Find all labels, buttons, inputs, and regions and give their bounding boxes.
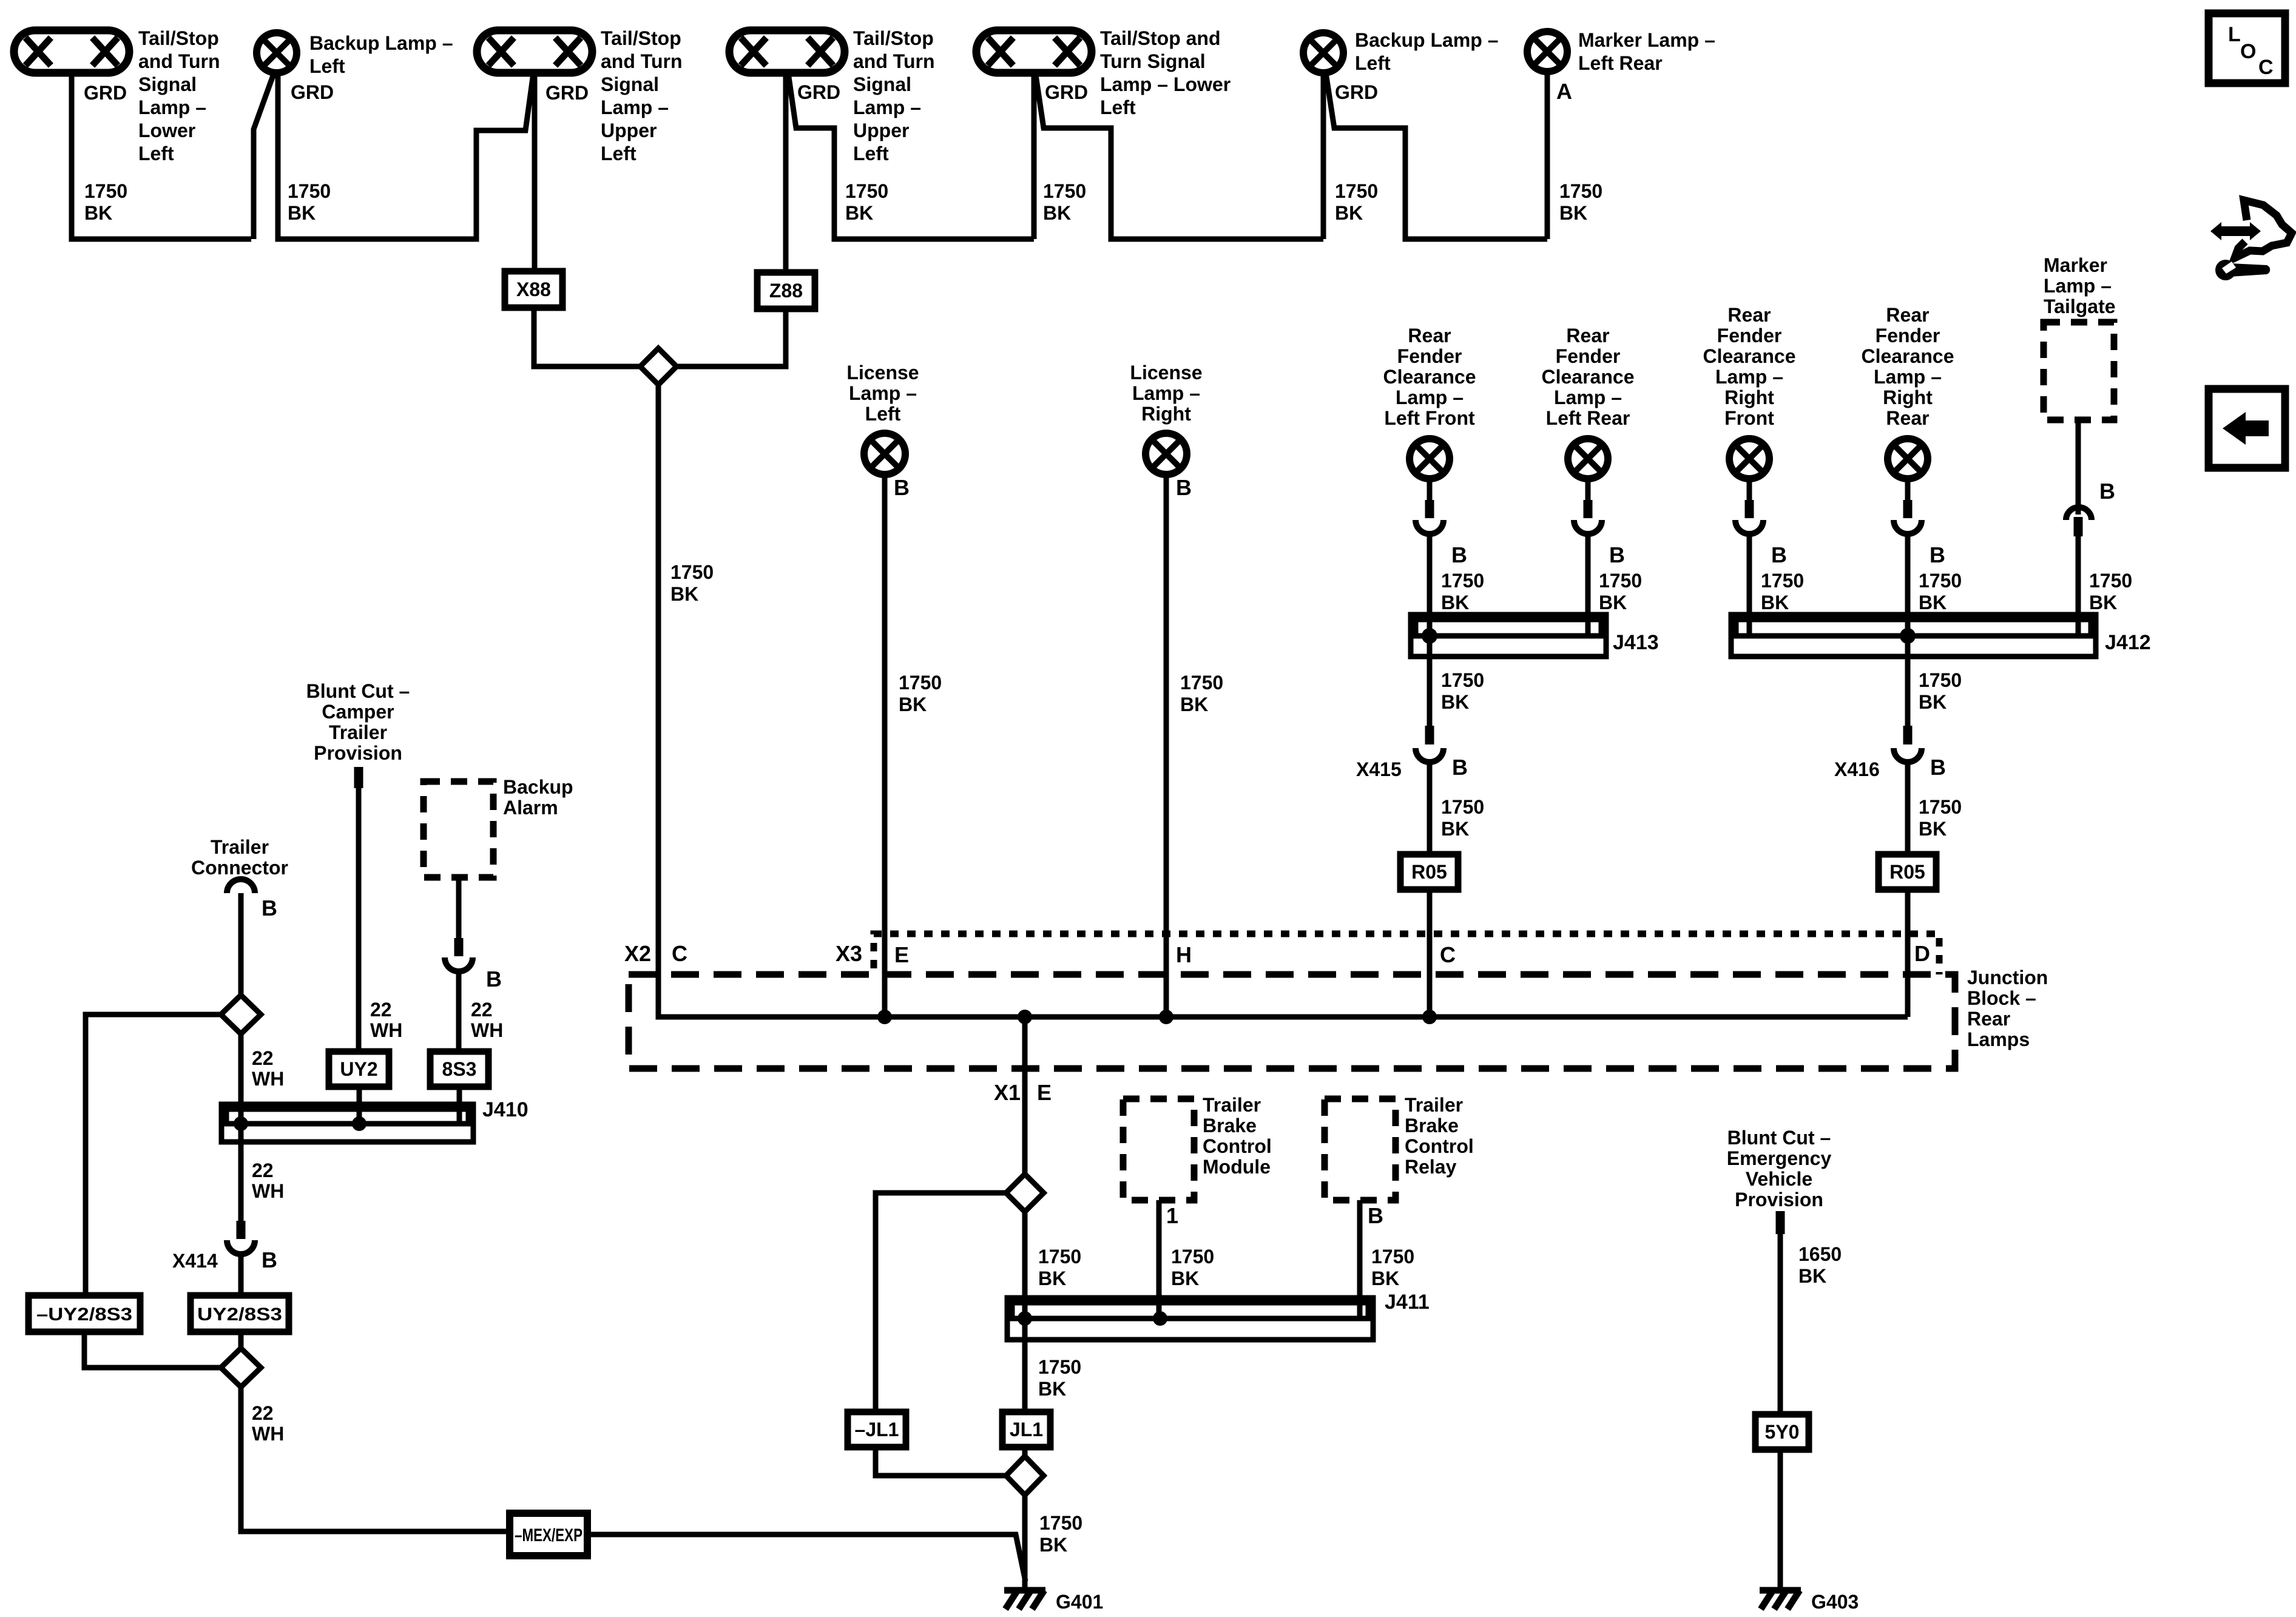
label: Tail/Stop and Turn Signal Lamp - Upper Left #2	[853, 27, 935, 164]
connector box JL1	[1002, 1412, 1050, 1447]
wire: R05 to junction bus D	[1905, 890, 1911, 1017]
svg-text:BK: BK	[899, 694, 927, 715]
label: Rear Fender Clearance Lamp - Left Front	[1383, 325, 1476, 429]
wire: license right down to junction bus	[1164, 474, 1169, 1017]
svg-text:Lamp – Lower: Lamp – Lower	[1100, 73, 1231, 95]
svg-text:22: 22	[471, 999, 493, 1021]
wire: lamp7 down (1750 BK)	[1545, 72, 1550, 239]
pin label GRD (lamp 3)	[545, 82, 589, 104]
svg-text:X1: X1	[994, 1080, 1021, 1105]
svg-text:Left: Left	[1100, 96, 1136, 118]
connector box -MEX/EXP	[510, 1513, 587, 1556]
wire label 1750 BK (lamp1)	[84, 180, 127, 224]
svg-text:Backup Lamp –: Backup Lamp –	[1355, 29, 1499, 51]
svg-text:Upper: Upper	[853, 120, 909, 141]
svg-text:Left: Left	[601, 143, 636, 164]
svg-text:R05: R05	[1411, 861, 1447, 883]
svg-text:B: B	[1771, 542, 1787, 567]
svg-text:and Turn: and Turn	[138, 50, 220, 72]
svg-text:1750: 1750	[1599, 570, 1642, 592]
icon: connector-location pointer with wrench	[2210, 200, 2292, 280]
connector cap: trailer connector	[227, 879, 255, 893]
svg-text:Block –: Block –	[1967, 987, 2036, 1009]
svg-text:X416: X416	[1834, 758, 1880, 780]
svg-text:22: 22	[252, 1402, 274, 1424]
wire label 1750 BK (lamp2)	[288, 180, 331, 224]
pin label B (X414)	[262, 1247, 277, 1272]
terminal letter H	[1176, 942, 1192, 967]
svg-text:BK: BK	[84, 202, 112, 224]
connector box -UY2/8S3	[29, 1295, 140, 1332]
label: Trailer Brake Control Relay	[1405, 1094, 1474, 1178]
svg-text:Relay: Relay	[1405, 1156, 1457, 1178]
label: Backup Lamp - Left #2	[1355, 29, 1499, 74]
icon box LOC	[2209, 13, 2285, 83]
label: Tail/Stop and Turn Signal Lamp - Lower Left	[138, 27, 220, 164]
svg-text:Provision: Provision	[314, 742, 402, 764]
splice diamond (left lower)	[221, 1348, 261, 1387]
connector socket X416	[1894, 748, 1922, 762]
svg-text:License: License	[1130, 362, 1202, 383]
svg-text:Lamp –: Lamp –	[1132, 382, 1200, 404]
svg-text:Brake: Brake	[1405, 1115, 1459, 1136]
connector box R05 (left)	[1400, 854, 1458, 890]
wire: -JL1 down to diamond3	[876, 1447, 1006, 1476]
svg-text:X3: X3	[836, 941, 862, 966]
svg-text:Provision: Provision	[1735, 1189, 1823, 1210]
svg-text:Clearance: Clearance	[1383, 366, 1476, 388]
svg-text:Right: Right	[1141, 403, 1191, 425]
label: License Lamp - Right	[1130, 362, 1202, 425]
wire label 22 WH (below diamond5)	[252, 1402, 284, 1445]
wire label 1750 BK (above R05)	[1441, 796, 1484, 840]
terminal letter E (X1)	[1037, 1080, 1052, 1105]
svg-text:BK: BK	[1919, 592, 1947, 613]
svg-text:GRD: GRD	[1045, 81, 1088, 103]
svg-text:1750: 1750	[670, 561, 714, 583]
wire: -MEX/EXP to ground junction	[587, 1534, 1025, 1581]
wire: lamp5 main down (1750 BK)	[1032, 71, 1037, 239]
svg-text:UY2/8S3: UY2/8S3	[197, 1305, 282, 1325]
svg-text:BK: BK	[1559, 202, 1587, 224]
svg-text:BK: BK	[1919, 818, 1947, 840]
svg-text:E: E	[894, 942, 909, 967]
lamp: rear fender clearance lamp - right front (circle)	[1729, 439, 1769, 479]
lamp: backup lamp - left (circle symbol)	[257, 33, 297, 73]
wire: X416 to R05	[1905, 762, 1911, 854]
wire label 1750 BK (right front)	[1761, 570, 1804, 613]
svg-text:1: 1	[1166, 1203, 1178, 1228]
wire: GRD slant from backup lamp joining lamp1 wire	[254, 72, 274, 239]
svg-text:B: B	[1368, 1203, 1383, 1228]
label: Rear Fender Clearance Lamp - Left Rear	[1542, 325, 1635, 429]
wire: lamp5 GRD branch right/down to lamp6	[1035, 71, 1323, 239]
connector box Z88	[757, 272, 815, 309]
wire: JL1 down to diamond3	[1022, 1447, 1028, 1456]
svg-text:Tail/Stop and: Tail/Stop and	[1100, 27, 1221, 49]
wire: tailgate into splice J412 right	[2076, 536, 2081, 636]
wire: branch left to -JL1	[876, 1193, 1006, 1412]
svg-text:WH: WH	[252, 1423, 284, 1445]
svg-text:WH: WH	[252, 1180, 284, 1202]
wire label 1750 BK (license right)	[1180, 672, 1223, 715]
connector pin (left rear)	[1584, 500, 1593, 518]
svg-text:Left: Left	[853, 143, 889, 164]
svg-text:B: B	[2099, 479, 2115, 504]
svg-text:1750: 1750	[845, 180, 888, 202]
svg-text:B: B	[894, 475, 910, 500]
wire: diamond3 down to ground G401	[1022, 1495, 1028, 1590]
pin label GRD (lamp 4)	[797, 81, 840, 103]
svg-text:Rear: Rear	[1886, 304, 1929, 326]
svg-text:1750: 1750	[899, 672, 942, 694]
junction block - rear lamps (dashed box)	[629, 974, 1955, 1068]
wire: 8S3 down into J410	[457, 1087, 462, 1121]
svg-text:B: B	[1452, 755, 1468, 780]
wire: J410 down to X414	[238, 1124, 244, 1222]
wire label 1750 BK (tailgate)	[2089, 570, 2132, 613]
svg-text:22: 22	[370, 999, 392, 1021]
svg-text:Lower: Lower	[138, 120, 195, 141]
svg-text:1750: 1750	[1039, 1512, 1082, 1534]
label J412	[2105, 631, 2151, 654]
label: Rear Fender Clearance Lamp - Right Rear	[1862, 304, 1954, 429]
svg-text:WH: WH	[471, 1019, 503, 1041]
svg-text:1750: 1750	[1038, 1356, 1081, 1378]
wire: J413 down to X415	[1427, 636, 1433, 727]
svg-text:BK: BK	[1043, 202, 1071, 224]
svg-text:Rear: Rear	[1727, 304, 1771, 326]
wire: Z88 to splice diamond	[677, 309, 786, 366]
wire label 22 WH (backup alarm)	[471, 999, 503, 1041]
svg-text:Left: Left	[138, 143, 174, 164]
svg-text:C: C	[1440, 942, 1456, 967]
wire label 22 WH (below J410)	[252, 1160, 284, 1202]
svg-text:B: B	[262, 896, 277, 920]
wire: lamp to connector pin (right front)	[1747, 479, 1752, 501]
svg-text:GRD: GRD	[1335, 81, 1378, 103]
svg-text:E: E	[1037, 1080, 1052, 1105]
connector pin (tailgate)	[2074, 517, 2083, 536]
connector socket (right front)	[1735, 520, 1763, 534]
junction dot E on bus	[877, 1010, 892, 1024]
wire: 1750 BK from backup lamp main, to lamp3 GRD riser	[278, 72, 533, 239]
svg-text:Marker Lamp –: Marker Lamp –	[1578, 29, 1715, 51]
wire: relay pin B down to J411	[1357, 1200, 1363, 1318]
label: Tail/Stop and Turn Signal Lamp - Upper Left	[601, 27, 683, 164]
svg-text:–JL1: –JL1	[855, 1419, 899, 1440]
svg-text:BK: BK	[1180, 694, 1208, 715]
label: Marker Lamp - Left Rear	[1578, 29, 1715, 74]
wire: X415 to R05	[1427, 762, 1433, 854]
label: License Lamp - Left	[846, 362, 919, 425]
svg-text:Lamps: Lamps	[1967, 1028, 2030, 1050]
blunt cut stub (emergency vehicle)	[1776, 1211, 1785, 1234]
wire label 1750 BK (lamp6)	[1335, 180, 1378, 224]
splice pack J411	[1007, 1298, 1373, 1340]
connector label X3	[836, 941, 862, 966]
svg-text:–MEX/EXP: –MEX/EXP	[515, 1525, 582, 1545]
svg-text:Brake: Brake	[1203, 1115, 1257, 1136]
connector pin X414	[237, 1221, 246, 1239]
wire label 1650 BK	[1798, 1243, 1842, 1287]
svg-text:J412: J412	[2105, 631, 2151, 654]
label J413	[1613, 631, 1659, 654]
connector boundary X3 (dotted line)	[874, 934, 1939, 974]
svg-text:BK: BK	[845, 202, 873, 224]
svg-text:Tail/Stop: Tail/Stop	[853, 27, 934, 49]
svg-text:Control: Control	[1203, 1135, 1272, 1157]
splice diamond below junction block	[1006, 1174, 1044, 1212]
svg-text:1750: 1750	[1761, 570, 1804, 592]
wire label 1750 BK (above R05 right)	[1919, 796, 1962, 840]
connector box 5Y0	[1755, 1414, 1809, 1450]
svg-text:1650: 1650	[1798, 1243, 1842, 1265]
svg-text:Camper: Camper	[322, 701, 394, 723]
svg-text:O: O	[2240, 40, 2256, 63]
pin label GRD (lamp 1)	[84, 82, 127, 104]
connector cap (tailgate)	[2066, 507, 2092, 520]
svg-text:Rear: Rear	[1886, 407, 1929, 429]
svg-text:1750: 1750	[1171, 1246, 1214, 1268]
component dashed box: marker lamp - tailgate	[2044, 322, 2114, 420]
wire label 1750 BK (left rear)	[1599, 570, 1642, 613]
lamp: tail/stop and turn signal lamp - upper left #2 (stadium)	[729, 30, 845, 73]
wire: lamp4 main down to Z88	[783, 73, 789, 272]
terminal letter C (X2)	[672, 941, 687, 966]
wire: lamp6 GRD branch right/down to lamp7	[1326, 73, 1547, 239]
wire: X414 to UY2/8S3 box	[238, 1254, 244, 1295]
connector label X416	[1834, 758, 1880, 780]
svg-text:Blunt Cut –: Blunt Cut –	[1727, 1127, 1831, 1149]
junction dot H on bus	[1159, 1010, 1173, 1024]
svg-text:J410: J410	[482, 1098, 528, 1121]
svg-text:Front: Front	[1724, 407, 1774, 429]
splice diamond (trailer connector)	[221, 995, 261, 1034]
svg-text:X88: X88	[516, 279, 551, 300]
svg-text:Right: Right	[1883, 387, 1933, 408]
svg-text:Backup Lamp –: Backup Lamp –	[309, 32, 453, 54]
junction dot J411 left	[1018, 1311, 1032, 1326]
svg-text:Upper: Upper	[601, 120, 657, 141]
pin label B (left rear)	[1609, 542, 1625, 567]
svg-text:C: C	[2258, 56, 2274, 79]
svg-text:Tail/Stop: Tail/Stop	[138, 27, 219, 49]
svg-text:Z88: Z88	[769, 280, 803, 302]
wire: X1 E down from bus	[1022, 1017, 1028, 1175]
wire: backup alarm down to connector	[456, 877, 462, 939]
ground symbol G403	[1760, 1590, 1801, 1609]
svg-text:Lamp –: Lamp –	[853, 96, 921, 118]
ground symbol G401	[1004, 1590, 1045, 1609]
svg-text:Left Rear: Left Rear	[1578, 52, 1663, 74]
svg-text:Left: Left	[1355, 52, 1391, 74]
svg-text:and Turn: and Turn	[853, 50, 935, 72]
wire label 1750 BK (lamp5)	[1043, 180, 1086, 224]
terminal letter D	[1914, 941, 1930, 966]
wire: UY2 down into J410	[357, 1087, 362, 1124]
svg-text:and Turn: and Turn	[601, 50, 683, 72]
wire label 1750 BK (module)	[1171, 1246, 1214, 1289]
svg-text:Rear: Rear	[1566, 325, 1609, 346]
svg-text:Module: Module	[1203, 1156, 1271, 1178]
label J410	[482, 1098, 528, 1121]
wire label 1750 BK (below J413)	[1441, 669, 1484, 713]
connector box UY2/8S3	[191, 1295, 289, 1332]
wire: blunt cut camper down to UY2	[356, 788, 362, 1052]
pin label B (license right)	[1176, 475, 1192, 500]
svg-text:Lamp –: Lamp –	[1396, 387, 1464, 408]
wire label 1750 BK (to G401)	[1039, 1512, 1082, 1556]
pin label B (tailgate)	[2099, 479, 2115, 504]
connector pin (right rear)	[1903, 500, 1913, 518]
connector socket (left front)	[1416, 520, 1443, 534]
label: Backup Alarm	[503, 776, 573, 819]
wire: junction block internal bus	[658, 1014, 1908, 1017]
svg-text:UY2: UY2	[340, 1058, 377, 1080]
wire: lamp6 main down (1750 BK)	[1321, 73, 1326, 239]
connector label X1	[994, 1080, 1021, 1105]
junction dot J410 left	[234, 1116, 248, 1131]
wire: diamond5 down to MEX/EXP line	[241, 1387, 510, 1531]
connector box X88	[505, 271, 562, 308]
svg-text:BK: BK	[1599, 592, 1627, 613]
svg-text:BK: BK	[1798, 1265, 1826, 1287]
svg-text:GRD: GRD	[291, 81, 334, 103]
svg-text:J411: J411	[1385, 1291, 1430, 1314]
svg-text:WH: WH	[370, 1019, 402, 1041]
pin label B (X416)	[1930, 755, 1946, 780]
pin label GRD (lamp 2)	[291, 81, 334, 103]
connector pin X415	[1425, 726, 1434, 744]
svg-text:Lamp –: Lamp –	[1715, 366, 1783, 388]
svg-text:D: D	[1914, 941, 1930, 966]
svg-text:License: License	[846, 362, 919, 383]
svg-text:H: H	[1176, 942, 1192, 967]
svg-text:Tailgate: Tailgate	[2044, 295, 2116, 317]
wire: lamp4 GRD branch down to chain and right to lamp5	[788, 73, 1034, 239]
wire: into splice J413	[1427, 533, 1433, 636]
svg-text:Connector: Connector	[191, 857, 288, 879]
wire: into splice J412	[1747, 533, 1752, 636]
svg-text:Control: Control	[1405, 1135, 1474, 1157]
svg-text:BK: BK	[1761, 592, 1789, 613]
svg-text:Trailer: Trailer	[1203, 1094, 1261, 1116]
terminal letter C	[1440, 942, 1456, 967]
svg-text:1750: 1750	[1441, 669, 1484, 691]
svg-text:C: C	[672, 941, 687, 966]
wire label 1750 BK (below J412)	[1919, 669, 1962, 713]
svg-text:GRD: GRD	[797, 81, 840, 103]
label: Tail/Stop and Turn Signal Lamp - Lower Left #2	[1100, 27, 1231, 118]
label: Blunt Cut - Emergency Vehicle Provision	[1727, 1127, 1832, 1210]
svg-text:Fender: Fender	[1717, 325, 1782, 346]
svg-text:5Y0: 5Y0	[1765, 1421, 1800, 1443]
svg-text:1750: 1750	[1559, 180, 1602, 202]
svg-text:BK: BK	[1371, 1268, 1399, 1289]
wire: connector down to 8S3	[456, 971, 462, 1052]
splice pack J410	[221, 1104, 473, 1142]
svg-text:1750: 1750	[2089, 570, 2132, 592]
junction dot C on bus	[1422, 1010, 1437, 1024]
wire: module pin 1 down to J411	[1156, 1200, 1162, 1318]
svg-text:Fender: Fender	[1556, 345, 1621, 367]
connector box -JL1	[848, 1412, 906, 1447]
svg-text:BK: BK	[1441, 818, 1469, 840]
pin label B (backup alarm)	[486, 967, 502, 991]
svg-text:GRD: GRD	[545, 82, 589, 104]
svg-text:BK: BK	[1171, 1268, 1199, 1289]
svg-text:Marker: Marker	[2044, 254, 2107, 276]
connector box R05 (right)	[1879, 854, 1936, 890]
pin label B (X415)	[1452, 755, 1468, 780]
wire: emergency provision down to 5Y0	[1778, 1234, 1783, 1414]
wire label 1750 BK (lamp7)	[1559, 180, 1602, 224]
svg-text:Left: Left	[865, 403, 901, 425]
svg-text:R05: R05	[1889, 861, 1925, 883]
svg-text:BK: BK	[670, 583, 698, 605]
wire label 1750 BK (right rear)	[1919, 570, 1962, 613]
svg-text:BK: BK	[1039, 1534, 1067, 1556]
pin label B (left front)	[1451, 542, 1467, 567]
wire label 1750 BK (J411 to JL1)	[1038, 1356, 1081, 1400]
svg-text:J413: J413	[1613, 631, 1659, 654]
svg-text:Clearance: Clearance	[1542, 366, 1635, 388]
svg-text:B: B	[1930, 755, 1946, 780]
wire: lamp to connector pin (left rear)	[1585, 479, 1591, 501]
pin label B (right front)	[1771, 542, 1787, 567]
svg-text:JL1: JL1	[1010, 1419, 1043, 1440]
lamp: rear fender clearance lamp - left front (circle)	[1410, 439, 1450, 479]
svg-text:Trailer: Trailer	[1405, 1094, 1463, 1116]
wire label 1750 BK (X1 into J411)	[1038, 1246, 1081, 1289]
connector pin (backup alarm)	[454, 938, 464, 956]
svg-text:WH: WH	[252, 1068, 284, 1090]
svg-text:Lamp –: Lamp –	[601, 96, 669, 118]
splice pack J412	[1731, 615, 2096, 657]
pin label B (right rear)	[1930, 542, 1945, 567]
svg-text:BK: BK	[1919, 691, 1947, 713]
lamp: backup lamp - left #2 (circle)	[1303, 33, 1343, 73]
splice diamond under X88/Z88	[640, 348, 677, 385]
component dashed box: trailer brake control relay	[1325, 1099, 1396, 1200]
lamp: rear fender clearance lamp - right rear (circle)	[1888, 439, 1928, 479]
svg-text:Clearance: Clearance	[1862, 345, 1954, 367]
svg-text:Right: Right	[1724, 387, 1774, 408]
svg-text:1750: 1750	[1919, 669, 1962, 691]
svg-text:Rear: Rear	[1408, 325, 1451, 346]
lamp: tail/stop and turn signal lamp - upper left (stadium)	[477, 30, 592, 73]
svg-text:A: A	[1556, 79, 1572, 104]
label: Marker Lamp - Tailgate	[2044, 254, 2116, 317]
pin label B (license left)	[894, 475, 910, 500]
lamp: rear fender clearance lamp - left rear (circle)	[1568, 439, 1608, 479]
junction dot in J413	[1422, 628, 1437, 644]
connector label X2	[624, 941, 651, 966]
lamp: tail/stop and turn signal lamp - lower left (stadium symbol)	[14, 30, 129, 73]
pin label B (relay)	[1368, 1203, 1383, 1228]
connector label X415	[1356, 758, 1402, 780]
connector socket (left rear)	[1574, 520, 1602, 534]
wire: tailgate lamp down to connector	[2076, 420, 2081, 515]
label: Trailer Connector	[191, 836, 288, 879]
pin label A (lamp 7)	[1556, 79, 1572, 104]
label J411	[1385, 1291, 1430, 1314]
svg-text:1750: 1750	[1180, 672, 1223, 694]
svg-text:1750: 1750	[288, 180, 331, 202]
splice diamond above G401	[1006, 1456, 1044, 1495]
svg-text:Clearance: Clearance	[1703, 345, 1796, 367]
